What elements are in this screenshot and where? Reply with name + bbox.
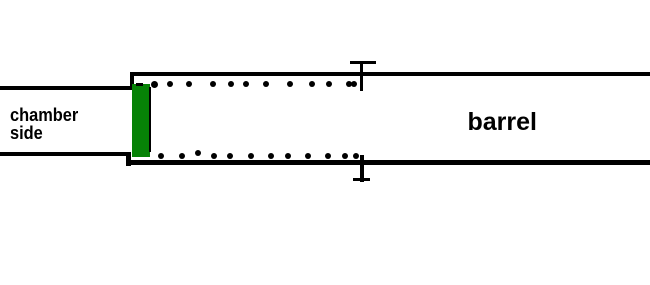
black border right of ring (149, 87, 151, 153)
top index mark stem (360, 61, 364, 91)
barrel top wall line (130, 72, 650, 76)
label: chamber side (10, 107, 78, 142)
black smudge on ring top edge (136, 83, 144, 85)
bottom dotted gas-port row (0, 0, 650, 1)
bottom step vertical wire (126, 152, 131, 166)
label: barrel (468, 110, 537, 135)
chamber bottom wall line (0, 152, 131, 156)
bottom index mark cap bar (353, 178, 369, 182)
top step vertical wire (130, 72, 134, 90)
top dotted gas-port row (0, 0, 650, 1)
top index mark cap bar (350, 61, 376, 64)
green seal ring rectangle (132, 84, 150, 157)
chamber top wall line (0, 86, 132, 90)
barrel bottom wall line (130, 160, 650, 164)
bottom index mark stem (360, 155, 364, 182)
